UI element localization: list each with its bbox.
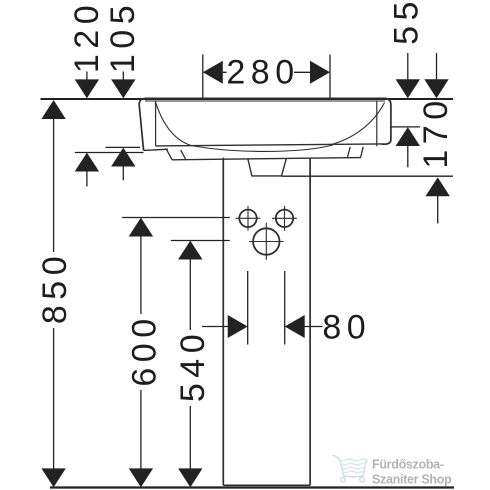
svg-text:850: 850 <box>36 251 74 324</box>
svg-text:540: 540 <box>174 329 212 402</box>
svg-text:120: 120 <box>68 0 106 73</box>
svg-text:170: 170 <box>417 95 455 168</box>
svg-text:600: 600 <box>126 313 164 386</box>
svg-text:80: 80 <box>322 309 371 347</box>
svg-text:55: 55 <box>388 0 426 45</box>
svg-text:105: 105 <box>104 0 142 73</box>
svg-text:Szaniter Shop: Szaniter Shop <box>372 472 452 486</box>
svg-text:Fürdőszoba-: Fürdőszoba- <box>372 457 444 471</box>
svg-text:280: 280 <box>226 54 299 92</box>
